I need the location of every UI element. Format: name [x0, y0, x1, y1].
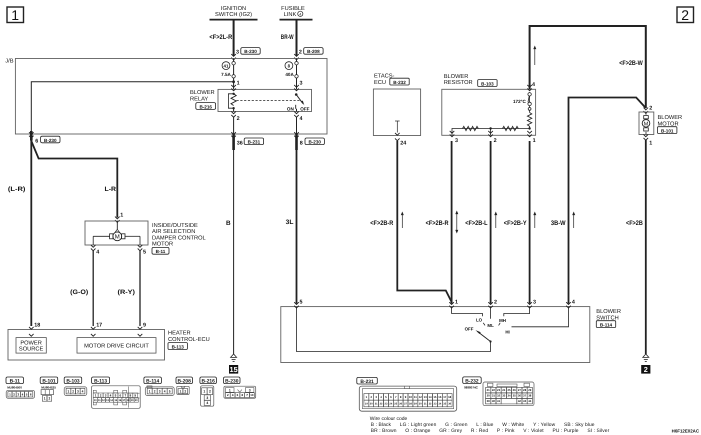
relay coil	[228, 85, 236, 112]
fusible link 4 source bar	[280, 6, 313, 20]
svg-text:34: 34	[507, 394, 511, 398]
ECU pin 18	[29, 322, 40, 336]
svg-text:2: 2	[100, 393, 102, 397]
svg-text:LINK: LINK	[284, 12, 297, 18]
svg-text:2: 2	[681, 7, 689, 23]
wire L-R branch to damper motor pin 1	[31, 141, 117, 218]
svg-text:1: 1	[149, 389, 151, 393]
wire B from relay pin 2 to ground 15	[226, 150, 234, 354]
svg-text:1: 1	[44, 397, 46, 401]
svg-text:3B-W: 3B-W	[551, 220, 566, 227]
svg-text:B-230: B-230	[308, 140, 321, 145]
svg-text:2: 2	[154, 389, 156, 393]
connector pinout B-103	[64, 377, 87, 396]
blower motor pin 2	[644, 106, 653, 114]
svg-text:BLOWER: BLOWER	[190, 90, 215, 96]
fuse 8 40A	[285, 59, 298, 90]
svg-text:9: 9	[143, 322, 146, 328]
relay pin 2	[231, 111, 239, 134]
svg-text:24: 24	[502, 388, 506, 392]
svg-text:B-103: B-103	[481, 81, 494, 86]
svg-text:ETACS-: ETACS-	[374, 74, 395, 80]
resistor pin 1	[527, 131, 535, 144]
svg-text:5: 5	[143, 249, 146, 255]
svg-text:CONTROL-ECU: CONTROL-ECU	[168, 337, 210, 343]
label 3B-W arrow	[551, 212, 575, 229]
svg-text:13: 13	[424, 395, 428, 399]
connector pinout B-208	[176, 377, 193, 394]
svg-text:RELAY: RELAY	[190, 96, 208, 102]
switch pin 2	[488, 300, 497, 308]
ground 2	[641, 354, 650, 374]
heater control-ECU B-113 box	[8, 330, 210, 361]
svg-text:8: 8	[129, 393, 131, 397]
svg-text:2: 2	[494, 138, 497, 144]
ignition switch (IG2) source bar	[210, 6, 258, 20]
svg-text:<F>2B-L: <F>2B-L	[465, 220, 487, 227]
blower motor pin 1	[644, 134, 653, 146]
svg-text:MOTOR DRIVE CIRCUIT: MOTOR DRIVE CIRCUIT	[84, 344, 149, 350]
svg-text:ML: ML	[487, 323, 494, 328]
svg-text:INSIDE/OUTSIDE: INSIDE/OUTSIDE	[152, 222, 198, 229]
svg-text:3: 3	[159, 389, 161, 393]
wire 3L from 8 B-230 to blower switch pin 5	[286, 150, 297, 304]
svg-text:M: M	[115, 234, 120, 241]
wire 2B from motor pin 1 to ground 2	[626, 140, 646, 354]
svg-text:2: 2	[494, 300, 497, 306]
wire (R-Y) to ECU pin 9	[118, 251, 141, 326]
svg-text:2: 2	[48, 397, 50, 401]
svg-text:4: 4	[164, 389, 166, 393]
svg-text:1: 1	[95, 393, 97, 397]
svg-text:IGNITION: IGNITION	[221, 6, 246, 12]
svg-text:4: 4	[572, 300, 575, 306]
wire from node 1 left and down to 6 B-230	[31, 82, 233, 132]
svg-text:M: M	[644, 121, 649, 127]
fuse 41 7.5A	[221, 59, 235, 82]
svg-text:25: 25	[507, 388, 511, 392]
relay switch ON/OFF	[287, 85, 310, 112]
inside/outside air selection damper control motor B-11	[85, 221, 206, 254]
connector 3 B-230 at J/B top	[231, 48, 260, 60]
svg-text:35: 35	[513, 394, 517, 398]
svg-text:22: 22	[492, 388, 496, 392]
motor drive circuit block	[77, 338, 156, 354]
svg-text:<F>2B-Y: <F>2B-Y	[504, 220, 527, 227]
svg-text:3: 3	[533, 300, 536, 306]
svg-text:3: 3	[77, 389, 79, 393]
wire 3B-W blower switch pin4 to motor pin 2	[569, 98, 646, 304]
svg-text:2: 2	[649, 106, 652, 112]
svg-text:DAMPER CONTROL: DAMPER CONTROL	[152, 235, 206, 241]
ETACS-ECU B-232 box	[373, 74, 420, 136]
svg-text:23: 23	[497, 388, 501, 392]
svg-text:4: 4	[299, 12, 301, 16]
ECU pin 9	[138, 322, 146, 336]
svg-text:J/B: J/B	[5, 58, 13, 65]
svg-text:27: 27	[518, 388, 522, 392]
svg-text:18: 18	[34, 322, 40, 328]
svg-text:21: 21	[487, 388, 491, 392]
svg-text:BR : Brown O : Orange: BR : Brown O : Orange GR : Grey R : Red …	[371, 428, 610, 434]
svg-text:B-230: B-230	[44, 138, 57, 143]
svg-text:POWER: POWER	[20, 340, 42, 346]
svg-text:AIR SELECTION: AIR SELECTION	[152, 229, 195, 235]
svg-text:4: 4	[206, 401, 208, 405]
svg-text:37: 37	[523, 394, 527, 398]
svg-text:15: 15	[230, 365, 238, 374]
svg-text:BLOWER: BLOWER	[658, 115, 683, 121]
wire 2B-L resistor pin2 to switch pin 2	[465, 141, 497, 304]
svg-text:2: 2	[72, 389, 74, 393]
svg-text:B-208: B-208	[307, 49, 320, 54]
svg-text:4: 4	[96, 249, 99, 255]
connector 6 B-230 at J/B bottom left	[29, 131, 60, 145]
svg-text:MOTOR: MOTOR	[152, 242, 173, 248]
svg-text:10: 10	[409, 395, 413, 399]
svg-text:29: 29	[528, 388, 532, 392]
svg-text:32: 32	[497, 394, 501, 398]
svg-text:4: 4	[300, 116, 303, 122]
svg-text:3: 3	[236, 50, 239, 56]
svg-text:16: 16	[438, 395, 442, 399]
switch pin 1	[449, 300, 458, 308]
svg-text:33: 33	[502, 394, 506, 398]
svg-text:B-113: B-113	[94, 379, 107, 385]
svg-text:5: 5	[169, 389, 171, 393]
svg-text:MU804500: MU804500	[7, 386, 22, 390]
svg-text:B-103: B-103	[66, 379, 80, 385]
thermal fuse 172C	[513, 92, 531, 112]
svg-text:10: 10	[250, 393, 254, 397]
wire 2L-R from ignition switch	[209, 20, 233, 56]
svg-text:4: 4	[110, 393, 112, 397]
svg-text:1: 1	[455, 300, 458, 306]
svg-text:18: 18	[448, 395, 452, 399]
svg-text:172°C: 172°C	[513, 99, 527, 104]
svg-text:3: 3	[455, 138, 458, 144]
svg-text:OFF: OFF	[300, 107, 309, 112]
svg-text:(L-R): (L-R)	[8, 186, 26, 193]
MH contact	[499, 318, 506, 325]
sheet number box 1	[7, 7, 24, 23]
svg-text:17: 17	[96, 322, 102, 328]
resistor pin 4 entry	[527, 82, 535, 91]
svg-text:ECU: ECU	[374, 80, 386, 86]
switch internal wiring pin1 to LO	[452, 307, 483, 317]
feed wire resistor pin4 to blower motor pin 2	[530, 26, 646, 108]
svg-text:5: 5	[115, 393, 117, 397]
connector 36 B-231 at J/B bottom	[231, 132, 263, 150]
wire BR-W from fusible link	[281, 20, 297, 56]
resistor element vertical	[527, 113, 531, 129]
blower relay B-216 box	[190, 89, 312, 111]
switch internal wiring pin5 to pivot	[297, 307, 491, 352]
svg-text:B-11: B-11	[10, 379, 21, 385]
switch pin 5	[294, 300, 302, 308]
svg-text:36: 36	[237, 140, 243, 146]
svg-text:<F>2B-R: <F>2B-R	[370, 220, 393, 227]
svg-text:B: B	[226, 220, 231, 227]
svg-text:7: 7	[125, 393, 127, 397]
connector pinout B-114	[144, 377, 174, 396]
svg-text:1: 1	[180, 389, 182, 393]
connector pinout B-231	[357, 377, 457, 411]
svg-text:BLOWER: BLOWER	[444, 74, 469, 80]
svg-text:Wire colour code: Wire colour code	[370, 416, 408, 422]
svg-text:B-216: B-216	[199, 104, 212, 109]
svg-text:3: 3	[105, 393, 107, 397]
switch pin 4	[566, 300, 575, 308]
svg-text:6: 6	[35, 139, 38, 145]
svg-text:11: 11	[414, 395, 417, 399]
svg-text:2: 2	[184, 389, 186, 393]
svg-text:L-R: L-R	[105, 186, 117, 193]
blower switch B-114 box	[281, 307, 621, 363]
svg-text:1: 1	[68, 389, 70, 393]
svg-text:2: 2	[644, 365, 648, 374]
svg-text:5: 5	[300, 300, 303, 306]
svg-text:MH: MH	[499, 318, 506, 323]
damper motor pin 4	[91, 245, 99, 255]
svg-text:9: 9	[134, 393, 136, 397]
switch arm with pivot	[476, 330, 492, 343]
blower resistor B-103 box	[442, 74, 536, 135]
wire 2B-R from ETACS pin 24 to blower switch pin 1	[370, 141, 451, 304]
svg-text:15: 15	[433, 395, 437, 399]
wire colour code legend	[370, 416, 610, 434]
svg-text:B-101: B-101	[661, 128, 674, 133]
svg-text:7.5A: 7.5A	[221, 72, 231, 77]
svg-text:41: 41	[497, 399, 501, 403]
connector pinout B-101	[40, 377, 58, 401]
svg-text:<F>2L-R: <F>2L-R	[209, 34, 232, 41]
svg-text:B-113: B-113	[172, 344, 185, 349]
connector pinout B-232	[463, 377, 534, 406]
svg-text:B-231: B-231	[248, 140, 261, 145]
svg-text:B-231: B-231	[360, 379, 374, 385]
connector 2 B-208 at J/B top	[294, 48, 323, 60]
svg-text:3L: 3L	[286, 219, 294, 226]
svg-text:40A: 40A	[285, 72, 294, 77]
svg-text:ON: ON	[287, 107, 295, 112]
svg-text:B-230: B-230	[225, 379, 239, 385]
svg-text:3: 3	[206, 396, 208, 400]
svg-text:HEATER: HEATER	[168, 331, 191, 337]
switch internal wiring pin4 to HI	[512, 307, 569, 327]
svg-text:1: 1	[237, 80, 240, 86]
resistor element horizontal left	[463, 126, 479, 130]
svg-text:17: 17	[443, 395, 447, 399]
svg-text:0888074C: 0888074C	[464, 385, 479, 389]
svg-text:FUSIBLE: FUSIBLE	[281, 6, 305, 12]
svg-text:B-114: B-114	[600, 322, 613, 327]
svg-text:1: 1	[203, 389, 205, 393]
svg-text:24: 24	[400, 141, 406, 147]
power source block	[16, 338, 46, 354]
svg-text:<F>2B-R: <F>2B-R	[426, 220, 449, 227]
wire 2B-Y resistor pin1 to switch pin 3	[504, 141, 537, 304]
svg-text:4: 4	[532, 82, 535, 88]
svg-text:HI: HI	[505, 329, 509, 334]
svg-text:MU804525: MU804525	[41, 386, 56, 390]
svg-text:B-230: B-230	[244, 49, 257, 54]
wire 2B-R resistor pin3 to switch pin 1	[426, 141, 459, 304]
svg-text:BLOWER: BLOWER	[596, 309, 621, 315]
ECU pin 17	[91, 322, 102, 336]
svg-text:8: 8	[300, 140, 303, 146]
relay pin 4	[294, 111, 302, 134]
damper motor pin 5	[138, 245, 146, 255]
resistor internal bus	[452, 127, 531, 135]
node 1 junction of fuse 41 output	[232, 80, 239, 86]
ground 15	[229, 354, 238, 374]
svg-text:3: 3	[300, 80, 303, 86]
svg-text:1: 1	[649, 140, 652, 146]
svg-text:SOURCE: SOURCE	[19, 347, 44, 353]
blower motor B-101	[639, 112, 682, 135]
svg-text:LO: LO	[476, 318, 483, 323]
connector pinout B-11	[6, 377, 35, 398]
svg-text:2: 2	[299, 50, 302, 56]
svg-text:43: 43	[523, 399, 527, 403]
svg-text:41: 41	[224, 63, 229, 68]
svg-text:26: 26	[513, 388, 517, 392]
junction block J/B box	[5, 58, 327, 135]
svg-text:1: 1	[229, 389, 231, 393]
svg-text:B-232: B-232	[393, 80, 406, 85]
svg-text:B-216: B-216	[202, 379, 216, 385]
relay dashed actuation line	[237, 99, 300, 101]
svg-text:B-114: B-114	[146, 379, 159, 385]
connector pinout B-230	[224, 377, 256, 398]
svg-text:<F>2B-W: <F>2B-W	[619, 60, 643, 67]
svg-text:2: 2	[209, 389, 211, 393]
svg-text:42: 42	[518, 399, 522, 403]
svg-text:H6F12E02AC: H6F12E02AC	[672, 428, 700, 433]
svg-text:38: 38	[528, 394, 532, 398]
sheet number box 2	[677, 7, 694, 23]
switch internal wiring pin2 to ML	[490, 307, 492, 319]
svg-text:1: 1	[11, 7, 19, 23]
svg-text:OFF: OFF	[465, 326, 474, 331]
svg-text:39: 39	[487, 399, 491, 403]
svg-text:1: 1	[533, 138, 536, 144]
svg-text:12: 12	[419, 395, 423, 399]
svg-text:BR-W: BR-W	[281, 34, 294, 41]
svg-text:6: 6	[120, 393, 122, 397]
connector 8 B-230 at J/B bottom	[294, 132, 324, 150]
svg-text:14: 14	[428, 395, 432, 399]
svg-text:B : Black LG : Light gree: B : Black LG : Light green G : Green L :…	[371, 422, 595, 428]
LO contact	[476, 318, 485, 326]
svg-text:3: 3	[249, 389, 251, 393]
connector pinout B-216	[200, 377, 217, 406]
switch internal wiring pin3 to MH	[504, 307, 530, 317]
svg-text:(G-O): (G-O)	[70, 289, 88, 296]
svg-text:SWITCH (IG2): SWITCH (IG2)	[215, 11, 252, 18]
svg-text:<F>2B: <F>2B	[626, 220, 643, 227]
wire (L-R) down to heater control ECU pin 18	[8, 141, 31, 327]
resistor pin 2	[488, 131, 496, 144]
svg-text:(R-Y): (R-Y)	[118, 289, 136, 296]
resistor element horizontal right	[503, 126, 519, 130]
wire node1 to relay pin 1	[233, 82, 235, 90]
wire (G-O) to ECU pin 17	[70, 251, 93, 326]
svg-text:44: 44	[528, 399, 532, 403]
svg-text:RESISTOR: RESISTOR	[444, 80, 473, 86]
svg-text:36: 36	[518, 394, 522, 398]
svg-text:1: 1	[120, 213, 123, 219]
switch pin 3	[527, 300, 536, 308]
damper motor pin 1	[115, 213, 123, 223]
svg-text:B-101: B-101	[42, 379, 56, 385]
ETACS pin 24	[395, 138, 406, 146]
resistor pin 3	[450, 131, 458, 144]
svg-text:40: 40	[492, 399, 496, 403]
svg-text:B-208: B-208	[178, 379, 192, 385]
svg-text:2: 2	[237, 116, 240, 122]
svg-text:30: 30	[487, 394, 491, 398]
svg-text:4: 4	[82, 389, 84, 393]
svg-text:B-11: B-11	[156, 249, 166, 254]
svg-text:B-232: B-232	[465, 378, 479, 384]
connector pinout B-113	[92, 377, 141, 408]
svg-text:28: 28	[523, 388, 527, 392]
svg-text:31: 31	[492, 394, 496, 398]
